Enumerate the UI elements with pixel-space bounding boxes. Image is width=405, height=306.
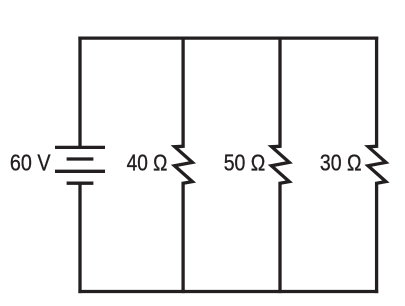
svg-text:40 Ω: 40 Ω <box>127 150 168 176</box>
wire right rail bottom lead <box>375 182 378 293</box>
resistor R1 zigzag <box>175 146 193 183</box>
wire branch 1 top lead <box>181 37 184 148</box>
wire right rail top lead <box>375 37 378 148</box>
wire left rail upper (battery top lead) <box>78 37 81 148</box>
wire left rail lower (battery bottom lead) <box>78 183 81 293</box>
svg-text:30 Ω: 30 Ω <box>320 150 362 176</box>
svg-text:60 V: 60 V <box>10 150 51 176</box>
resistor R3 zigzag <box>368 146 386 183</box>
wire branch 2 bottom lead <box>278 182 281 293</box>
wire branch 2 top lead <box>278 37 281 148</box>
wire top rail <box>78 36 378 39</box>
wire bottom rail <box>78 290 378 293</box>
svg-text:50 Ω: 50 Ω <box>224 150 266 176</box>
battery B1 60 V <box>55 147 105 183</box>
resistor R2 zigzag <box>271 146 289 183</box>
wire branch 1 bottom lead <box>181 182 184 293</box>
